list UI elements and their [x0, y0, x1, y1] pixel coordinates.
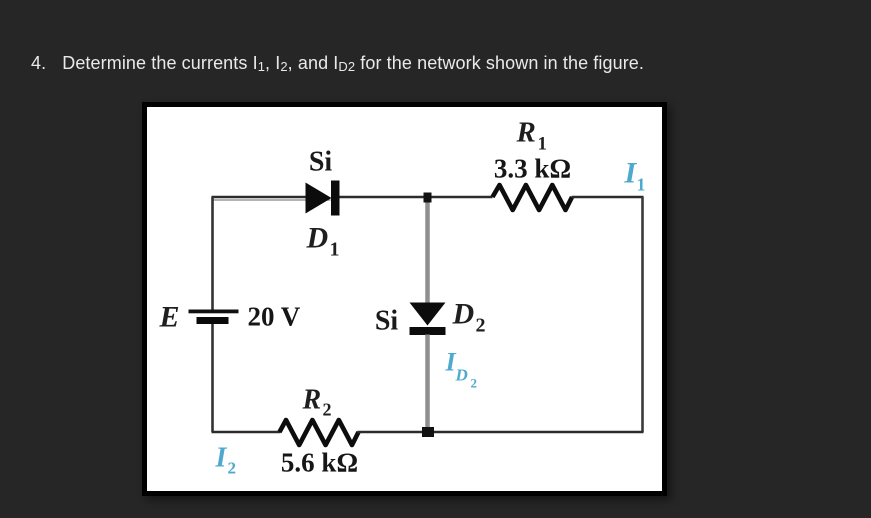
wire middle vertical upper: [425, 197, 430, 304]
wire middle vertical lower: [425, 334, 430, 432]
svg-text:I: I: [214, 442, 227, 473]
diode D1: [305, 180, 339, 215]
svg-text:1: 1: [329, 238, 339, 260]
svg-text:D: D: [454, 365, 467, 384]
svg-text:2: 2: [470, 375, 477, 390]
problem statement text: [31, 53, 644, 74]
diode D2: [409, 302, 445, 335]
wire right vertical: [641, 197, 644, 432]
node top junction: [423, 192, 431, 202]
svg-text:2: 2: [227, 458, 236, 477]
svg-text:1: 1: [636, 174, 645, 194]
resistor R2 zigzag: [279, 420, 358, 445]
svg-text:D: D: [451, 297, 474, 330]
wire top middle horizontal: [339, 195, 492, 197]
svg-text:Si: Si: [308, 146, 332, 177]
wire bottom left horizontal: [211, 430, 280, 432]
node bottom junction: [422, 427, 434, 437]
wire left vertical lower: [211, 324, 214, 432]
svg-text:R: R: [301, 384, 321, 415]
svg-text:5.6 kΩ: 5.6 kΩ: [280, 447, 357, 477]
svg-text:R: R: [515, 116, 535, 148]
svg-text:20 V: 20 V: [247, 301, 300, 331]
svg-text:1: 1: [537, 133, 547, 154]
battery E plates: [188, 309, 238, 324]
svg-text:I: I: [623, 156, 637, 189]
svg-text:D: D: [305, 221, 328, 254]
svg-text:Si: Si: [374, 305, 398, 336]
svg-text:3.3 kΩ: 3.3 kΩ: [493, 153, 570, 183]
svg-text:E: E: [158, 300, 179, 333]
figure box: [142, 102, 667, 496]
wire top right horizontal: [571, 195, 643, 197]
svg-text:2: 2: [475, 314, 485, 336]
wire left vertical upper: [211, 197, 214, 311]
wire top left horizontal: [211, 197, 330, 200]
wire bottom right horizontal: [357, 430, 643, 432]
resistor R1 zigzag: [492, 185, 572, 210]
svg-text:2: 2: [322, 399, 331, 419]
